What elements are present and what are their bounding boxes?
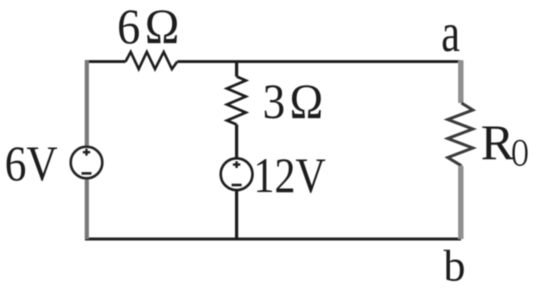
label 12V (254, 147, 326, 202)
svg-text:6Ω: 6Ω (117, 0, 184, 55)
wire right vertical upper (458, 60, 463, 103)
V2 minus mark (232, 184, 242, 187)
svg-text:R: R (481, 114, 515, 170)
svg-text:a: a (441, 1, 460, 63)
label 3ohm (263, 75, 328, 130)
wire middle vertical mid (235, 125, 238, 159)
svg-text:b: b (444, 240, 466, 291)
V2 plus mark (233, 161, 240, 168)
wire middle vertical lower (235, 190, 238, 239)
wire top-right segment (177, 60, 461, 63)
wire left vertical upper (85, 60, 89, 147)
wire left vertical lower (85, 178, 89, 239)
svg-text:6V: 6V (5, 136, 58, 192)
resistor R 3ohm zigzag (227, 77, 246, 125)
resistor RO zigzag (448, 103, 473, 166)
wire bottom (85, 238, 461, 241)
svg-text:12V: 12V (254, 147, 326, 202)
wire top-left segment (85, 60, 126, 63)
wire right vertical lower (458, 166, 463, 239)
label 6ohm (117, 0, 184, 55)
label RO (481, 114, 529, 174)
node a label (441, 1, 460, 63)
voltage source V1 6V circle (71, 147, 103, 179)
voltage source V2 12V circle (221, 158, 253, 190)
resistor R 6ohm zigzag (126, 52, 178, 69)
V1 plus mark (83, 149, 90, 156)
label 6V (5, 136, 58, 192)
node b label (444, 240, 466, 291)
svg-text:3Ω: 3Ω (263, 75, 328, 130)
svg-text:O: O (511, 130, 528, 173)
wire middle vertical upper (235, 62, 238, 77)
V1 minus mark (82, 172, 92, 175)
